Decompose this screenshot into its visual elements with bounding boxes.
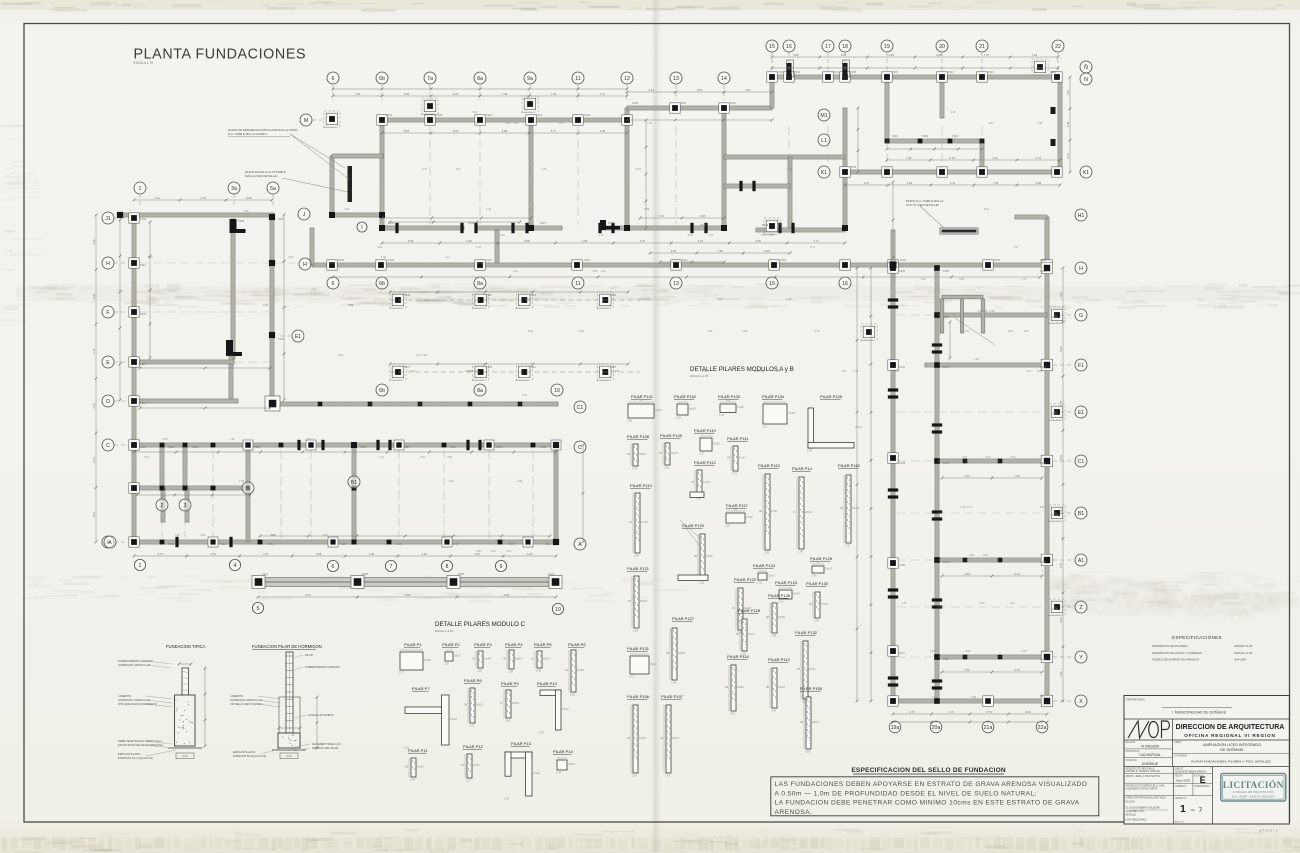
svg-text:27x18: 27x18: [512, 702, 519, 705]
svg-text:5.31: 5.31: [448, 456, 453, 459]
svg-text:5.68: 5.68: [316, 552, 322, 556]
svg-text:P115: P115: [486, 113, 492, 117]
svg-text:1.88: 1.88: [422, 354, 427, 357]
svg-text:27x14: 27x14: [641, 521, 648, 524]
svg-text:HORMIGON DE PILARES: HORMIGON DE PILARES: [1152, 644, 1187, 648]
svg-text:HORMIGON GRADO H-25: HORMIGON GRADO H-25: [118, 663, 151, 667]
svg-text:8a: 8a: [477, 76, 483, 82]
svg-text:P123: P123: [338, 258, 345, 262]
svg-text:1.78: 1.78: [599, 234, 604, 237]
svg-text:P108: P108: [238, 219, 245, 223]
svg-text:2.00: 2.00: [500, 234, 505, 237]
svg-text:5.31: 5.31: [1026, 370, 1031, 373]
interior vertical grid 14: [722, 108, 726, 230]
svg-text:6.57: 6.57: [1038, 122, 1043, 125]
svg-text:6.71: 6.71: [810, 246, 815, 249]
svg-text:CONTIENE: CONTIENE: [1174, 755, 1187, 758]
svg-text:P106: P106: [899, 563, 906, 567]
svg-text:5.50: 5.50: [163, 438, 168, 441]
svg-text:SOBRECIMIENTO ARMADO: SOBRECIMIENTO ARMADO: [118, 659, 153, 663]
svg-text:P120: P120: [140, 312, 147, 316]
right wing interior vertical: [935, 268, 939, 701]
door stubs on interior vertical: [932, 343, 942, 346]
svg-text:PILAR P122: PILAR P122: [734, 577, 757, 582]
svg-text:6.01: 6.01: [1040, 506, 1045, 509]
svg-text:5.81: 5.81: [645, 298, 650, 301]
long D/E1 wall to grid 10: [272, 402, 558, 406]
svg-text:P136: P136: [632, 101, 639, 105]
svg-text:1.42: 1.42: [522, 394, 527, 397]
svg-text:P113: P113: [140, 263, 146, 267]
svg-text:2.60: 2.60: [764, 249, 770, 253]
svg-text:16: 16: [842, 281, 848, 287]
svg-text:1.59: 1.59: [410, 778, 415, 781]
svg-text:6.93: 6.93: [477, 550, 482, 553]
interior wall grid 19: [885, 77, 889, 141]
svg-text:8a: 8a: [477, 281, 483, 287]
svg-text:4.60: 4.60: [742, 330, 747, 333]
svg-text:HORMIGON DE VIGAS Y CADENAS: HORMIGON DE VIGAS Y CADENAS: [1152, 651, 1202, 655]
F.P. base line: [272, 749, 306, 751]
left end jog of H wall: [310, 228, 314, 265]
svg-text:PILAR P13: PILAR P13: [511, 741, 532, 746]
svg-text:P129: P129: [168, 445, 175, 449]
svg-text:6b: 6b: [379, 388, 385, 394]
svg-text:6: 6: [332, 564, 335, 570]
dashed grid centre lines in rooms: [429, 126, 431, 225]
svg-text:2.45: 2.45: [786, 298, 791, 301]
svg-text:P103: P103: [1040, 560, 1047, 564]
svg-text:K1: K1: [1083, 170, 1089, 176]
svg-text:6.72: 6.72: [158, 552, 164, 556]
svg-text:P101: P101: [386, 113, 393, 117]
B and B1 bubbles: [242, 482, 254, 494]
C1 row wall: [937, 459, 1047, 463]
svg-text:8: 8: [446, 564, 449, 570]
svg-text:2.40: 2.40: [921, 278, 926, 281]
svg-text:5.37: 5.37: [422, 168, 427, 171]
svg-text:DEBE PENETRAR EL MEDIO 10cm: DEBE PENETRAR EL MEDIO 10cm: [118, 739, 162, 743]
svg-text:6.58: 6.58: [92, 239, 96, 245]
D row wall: [134, 399, 238, 403]
svg-text:18x22: 18x22: [706, 555, 713, 558]
L foot for P120: [678, 575, 708, 581]
riser at grid 15: [770, 77, 774, 108]
svg-text:5.30: 5.30: [381, 256, 386, 259]
svg-text:PILAR P125: PILAR P125: [810, 556, 833, 561]
svg-text:PILAR P107: PILAR P107: [661, 694, 684, 699]
door stubs on west wall: [888, 298, 898, 301]
interior wall grid 21 vertical: [980, 141, 984, 172]
svg-text:2.35: 2.35: [1059, 508, 1063, 514]
svg-text:1.57: 1.57: [902, 602, 907, 605]
M bubble: [300, 114, 312, 126]
svg-text:PILAR P110: PILAR P110: [694, 428, 716, 433]
svg-text:P123: P123: [530, 293, 537, 297]
svg-text:PILAR P120: PILAR P120: [682, 523, 705, 528]
small NW room: north wall: [332, 154, 383, 158]
svg-text:6.34: 6.34: [472, 370, 477, 373]
south wall segment A: [382, 226, 464, 230]
svg-text:COMUNA: COMUNA: [1126, 759, 1137, 762]
svg-text:14: 14: [721, 76, 727, 82]
svg-text:P103: P103: [680, 101, 687, 105]
svg-text:30x43: 30x43: [640, 600, 647, 603]
svg-text:1.24: 1.24: [513, 122, 518, 125]
svg-text:CIMIENTO: CIMIENTO: [230, 694, 243, 698]
svg-text:E1: E1: [1078, 410, 1084, 416]
svg-text:P138: P138: [540, 445, 547, 449]
svg-text:12: 12: [624, 76, 630, 82]
svg-text:2.59: 2.59: [811, 574, 816, 577]
svg-text:5.10: 5.10: [92, 403, 96, 409]
svg-text:Z: Z: [1079, 605, 1082, 611]
svg-text:LA FUNDACION DEBE PENETRAR COM: LA FUNDACION DEBE PENETRAR COMO MINIMO 1…: [775, 800, 1080, 807]
left edge streaks: [6, 269, 13, 271]
svg-text:PILAR P130: PILAR P130: [806, 581, 829, 586]
personnel column: [1172, 767, 1174, 825]
svg-text:4.59: 4.59: [980, 602, 985, 605]
svg-text:P124: P124: [794, 70, 801, 74]
extra dims right wing rooms: [942, 477, 1042, 479]
svg-text:1.89: 1.89: [508, 670, 513, 673]
svg-text:HORMIGON GRADO H-20: HORMIGON GRADO H-20: [118, 698, 151, 702]
svg-text:22x25: 22x25: [778, 616, 785, 619]
svg-text:21x46: 21x46: [639, 737, 646, 740]
svg-text:4.91: 4.91: [271, 534, 276, 537]
svg-text:13x33: 13x33: [450, 718, 457, 721]
svg-text:P138: P138: [1052, 513, 1059, 517]
svg-text:4.51: 4.51: [525, 298, 530, 301]
svg-text:PILAR P128: PILAR P128: [738, 608, 761, 613]
svg-text:7.48: 7.48: [404, 593, 410, 597]
svg-text:5.09: 5.09: [1059, 346, 1063, 352]
svg-text:N: N: [1084, 77, 1088, 83]
svg-text:DE DOÑIHUE: DE DOÑIHUE: [1220, 747, 1244, 752]
svg-text:DETALLE PILARES MODULO C: DETALLE PILARES MODULO C: [435, 621, 526, 628]
svg-text:CIMIENTO: CIMIENTO: [118, 694, 131, 698]
svg-text:FECHA: FECHA: [1175, 775, 1184, 778]
svg-text:P137: P137: [404, 365, 411, 369]
svg-text:1.39: 1.39: [964, 572, 970, 576]
svg-text:PILAR P14: PILAR P14: [792, 466, 813, 471]
svg-text:5.43: 5.43: [1066, 121, 1070, 127]
svg-text:1.33: 1.33: [698, 239, 704, 243]
svg-text:15x53: 15x53: [476, 704, 483, 707]
door stubs A row: [175, 537, 178, 547]
svg-text:4.18: 4.18: [1025, 710, 1031, 714]
north wall grids 12-15: [627, 106, 772, 110]
svg-text:18x10: 18x10: [689, 408, 696, 411]
svg-text:2.79: 2.79: [787, 168, 792, 171]
svg-text:B1: B1: [1078, 511, 1084, 517]
svg-text:16x37: 16x37: [768, 575, 775, 578]
dims around isolated footing rows: [390, 291, 628, 293]
svg-text:C1: C1: [1078, 459, 1085, 465]
B row partial wall: [134, 486, 250, 490]
svg-text:1: 1: [1180, 803, 1186, 815]
columns on H wall: [327, 260, 337, 270]
svg-text:PILAR P123: PILAR P123: [775, 580, 798, 585]
svg-text:PILAR P10: PILAR P10: [537, 681, 558, 686]
F.T. sobrecimiento column: [182, 668, 189, 695]
svg-text:1.52: 1.52: [477, 669, 482, 672]
svg-text:4.44: 4.44: [984, 208, 989, 211]
title block outer box: [1124, 696, 1289, 825]
columns right wing east wall: [1041, 262, 1053, 274]
svg-text:2.45: 2.45: [964, 330, 969, 333]
left module west dims: [95, 215, 97, 542]
svg-text:P127: P127: [943, 315, 950, 319]
svg-text:4.29: 4.29: [542, 168, 547, 171]
svg-text:2.52: 2.52: [664, 466, 669, 469]
svg-text:2.16: 2.16: [730, 712, 735, 715]
svg-text:A P 5 N ° 1: A P 5 N ° 1: [1259, 829, 1278, 833]
svg-text:P132: P132: [994, 258, 1001, 262]
svg-text:4.08: 4.08: [965, 650, 970, 653]
svg-text:5.79: 5.79: [986, 710, 992, 714]
svg-text:6.84: 6.84: [404, 92, 410, 96]
bottom band vertical streak texture: [2, 838, 7, 851]
svg-text:4.76: 4.76: [986, 456, 991, 459]
svg-text:ARQTO. JEFE U. PROYECTOS: ARQTO. JEFE U. PROYECTOS: [1126, 775, 1161, 778]
Y row wall: [937, 655, 1047, 659]
extra dimension chains top module: [333, 88, 627, 90]
svg-text:P140: P140: [452, 542, 459, 546]
ghost band 2 (y~585): [178, 589, 212, 591]
svg-text:2.92: 2.92: [513, 270, 518, 273]
svg-text:5.79: 5.79: [688, 234, 693, 237]
svg-text:1.32: 1.32: [964, 474, 970, 478]
bottom bubbles 1,4,6,7,8,9: [134, 559, 145, 570]
K1 south wall of NE section: [845, 170, 1060, 174]
svg-text:6.42: 6.42: [1024, 330, 1029, 333]
svg-text:Agto-2001: Agto-2001: [1176, 779, 1191, 783]
svg-text:MALLA (VER DETALLE): MALLA (VER DETALLE): [245, 174, 278, 178]
svg-text:EMPLANTILLADO: EMPLANTILLADO: [233, 750, 255, 754]
svg-text:12x19: 12x19: [778, 686, 785, 689]
svg-text:2.43: 2.43: [671, 681, 676, 684]
svg-text:5.47: 5.47: [420, 456, 425, 459]
E1 bubble: [292, 330, 304, 342]
svg-text:2.49: 2.49: [1037, 370, 1042, 373]
svg-text:1.04: 1.04: [490, 550, 495, 553]
svg-text:3.26: 3.26: [962, 456, 967, 459]
svg-text:2.77: 2.77: [466, 779, 471, 782]
svg-text:6: 6: [332, 281, 335, 287]
svg-text:D.A. MOP - SEXTA REGION: D.A. MOP - SEXTA REGION: [1232, 795, 1275, 799]
svg-text:H: H: [106, 261, 110, 267]
svg-text:2.12: 2.12: [762, 425, 767, 428]
svg-text:9a: 9a: [527, 76, 533, 82]
svg-text:5.78: 5.78: [1014, 668, 1020, 672]
svg-text:FUNDACION TIPICA: FUNDACION TIPICA: [166, 644, 206, 649]
svg-text:3.95: 3.95: [700, 214, 706, 218]
svg-text:P116: P116: [486, 293, 492, 297]
svg-text:1.52: 1.52: [907, 181, 913, 185]
svg-text:ARCH. N°: ARCH. N°: [1175, 821, 1185, 824]
svg-text:LAS FUNDACIONES DEBEN APOYARSE: LAS FUNDACIONES DEBEN APOYARSE EN ESTRAT…: [775, 781, 1088, 788]
svg-text:7.93: 7.93: [551, 92, 557, 96]
svg-text:2.51: 2.51: [444, 662, 449, 665]
vertical wall B1: [352, 445, 356, 542]
svg-text:X: X: [1079, 699, 1083, 705]
svg-text:13: 13: [673, 281, 679, 287]
svg-text:2.30: 2.30: [505, 719, 510, 722]
F.T. 0.40 dim box: [176, 753, 194, 759]
svg-text:UNIDAD DE PROYECTOS: UNIDAD DE PROYECTOS: [1233, 790, 1274, 794]
svg-text:H1: H1: [1078, 213, 1085, 219]
connector wall x=497: [495, 230, 499, 265]
svg-text:F: F: [106, 310, 109, 316]
black corner at x~618: [600, 220, 606, 230]
C1 bubble right of long wall: [574, 401, 586, 413]
svg-text:5.00: 5.00: [717, 298, 722, 301]
room walls grid2: [160, 445, 164, 488]
svg-text:P133: P133: [396, 542, 403, 546]
svg-text:P105: P105: [168, 542, 175, 546]
svg-text:3.35: 3.35: [888, 53, 894, 57]
east end wall of bottom module: [554, 445, 558, 542]
svg-text:2.57: 2.57: [539, 731, 544, 734]
svg-text:6b: 6b: [379, 281, 385, 287]
svg-text:PILAR P3: PILAR P3: [474, 642, 492, 647]
svg-text:1.40: 1.40: [647, 122, 652, 125]
right wing east wall: [1045, 268, 1049, 701]
svg-text:P107: P107: [508, 542, 515, 546]
svg-text:5: 5: [257, 606, 260, 612]
svg-text:1.22: 1.22: [709, 234, 714, 237]
svg-text:2.23: 2.23: [1066, 153, 1070, 159]
A1 row wall: [937, 558, 1047, 562]
svg-text:PILAR P105: PILAR P105: [820, 394, 843, 399]
svg-text:2.61: 2.61: [632, 774, 637, 777]
svg-text:ARENOSA.: ARENOSA.: [775, 809, 813, 816]
svg-text:3.55: 3.55: [524, 239, 530, 243]
A row long wall: [134, 540, 558, 544]
svg-text:2.71: 2.71: [263, 552, 269, 556]
svg-text:30x53: 30x53: [639, 453, 646, 456]
svg-text:PILAR P113: PILAR P113: [630, 483, 652, 488]
svg-text:P119: P119: [988, 70, 994, 74]
svg-text:20x28: 20x28: [793, 593, 800, 596]
svg-text:P138: P138: [850, 70, 857, 74]
svg-text:6: 6: [332, 76, 335, 82]
C A bubbles right: [574, 441, 586, 453]
svg-text:P135: P135: [458, 572, 465, 576]
svg-text:INGENIERO ESTRUCTURAS: INGENIERO ESTRUCTURAS: [1126, 788, 1158, 791]
big footings on extension wall: [252, 576, 265, 589]
svg-text:I. MUNICIPALIDAD DE DOÑIHUE: I. MUNICIPALIDAD DE DOÑIHUE: [1172, 710, 1227, 715]
J I bubbles: [298, 208, 310, 220]
svg-text:4.64: 4.64: [504, 593, 510, 597]
svg-text:P106: P106: [140, 217, 147, 221]
isolated footing P132 top right: [1034, 61, 1046, 72]
svg-text:P109: P109: [922, 134, 929, 138]
svg-text:PILAR P155: PILAR P155: [800, 686, 823, 691]
svg-text:DIRECTOR PROVINCIAL MOP ALER: DIRECTOR PROVINCIAL MOP ALER: [1126, 796, 1167, 799]
svg-text:SUBCARPETA: SUBCARPETA: [1194, 785, 1210, 788]
svg-text:VI REGION: VI REGION: [1141, 744, 1160, 748]
svg-text:20a: 20a: [932, 725, 941, 731]
svg-text:J1: J1: [105, 216, 111, 222]
svg-text:PILAR: PILAR: [305, 653, 313, 657]
svg-text:4: 4: [234, 563, 237, 569]
svg-text:2.95: 2.95: [644, 208, 649, 211]
top paper edge band: [0, 0, 1300, 10]
svg-text:4.93: 4.93: [263, 304, 268, 307]
columns right wing interior: [934, 265, 940, 271]
svg-text:1.59: 1.59: [699, 581, 704, 584]
svg-text:P113: P113: [899, 651, 905, 655]
svg-text:PILAR P117: PILAR P117: [726, 503, 748, 508]
svg-text:P135: P135: [850, 165, 857, 169]
svg-text:2.71: 2.71: [813, 239, 819, 243]
svg-text:1.14: 1.14: [445, 256, 450, 259]
right wing west wall: [891, 268, 895, 701]
sello text box: [771, 777, 1099, 816]
H1 bubble: [1075, 209, 1087, 221]
svg-text:4.54: 4.54: [288, 256, 293, 259]
svg-text:0.40: 0.40: [286, 754, 292, 758]
svg-text:15x47: 15x47: [809, 668, 816, 671]
svg-text:PILAR P127: PILAR P127: [672, 616, 695, 621]
svg-text:5.06: 5.06: [408, 239, 414, 243]
svg-text:P131: P131: [1052, 412, 1059, 416]
vertical 3a lower: [229, 356, 233, 402]
svg-text:10: 10: [555, 607, 561, 613]
C row long wall: [134, 443, 558, 447]
columns 5a wall: [269, 260, 275, 266]
svg-text:P101: P101: [140, 445, 147, 449]
svg-text:4.25: 4.25: [239, 480, 244, 483]
svg-text:I: I: [361, 225, 362, 231]
svg-text:21a: 21a: [984, 725, 993, 731]
L corner top 3a: [230, 219, 237, 233]
svg-text:2.99: 2.99: [633, 629, 638, 632]
svg-text:23x10: 23x10: [737, 686, 744, 689]
svg-text:7.20: 7.20: [355, 92, 361, 96]
svg-text:C1: C1: [577, 405, 584, 411]
svg-text:13x19: 13x19: [825, 568, 832, 571]
svg-text:P110: P110: [1040, 657, 1046, 661]
svg-text:3.44: 3.44: [648, 88, 654, 92]
MOP logo: [1128, 721, 1169, 738]
small room in wing top: [942, 295, 983, 299]
vertical wall at B bubble: [246, 445, 250, 542]
svg-text:5.05: 5.05: [579, 330, 584, 333]
small NW room: west wall: [330, 156, 334, 216]
columns along long D wall: [318, 402, 323, 407]
E row wall: [134, 360, 234, 364]
svg-text:7.27: 7.27: [600, 92, 606, 96]
F.P. footing: [278, 733, 300, 748]
svg-text:GRADO H-30: GRADO H-30: [1234, 644, 1253, 648]
svg-text:A1: A1: [1078, 558, 1084, 564]
wing west wall above H: [891, 230, 895, 268]
dim right edge of top module: [1069, 77, 1071, 172]
columns C row wall: [243, 440, 253, 450]
svg-text:PILAR P104: PILAR P104: [762, 394, 785, 399]
door stubs on south wall: [395, 223, 398, 233]
svg-text:1.95: 1.95: [582, 239, 588, 243]
svg-text:1.87: 1.87: [1014, 246, 1019, 249]
svg-text:7.63: 7.63: [502, 92, 508, 96]
svg-text:P112: P112: [948, 70, 954, 74]
svg-text:2.05: 2.05: [755, 239, 761, 243]
svg-text:19: 19: [884, 44, 890, 50]
svg-text:4.02: 4.02: [989, 122, 994, 125]
